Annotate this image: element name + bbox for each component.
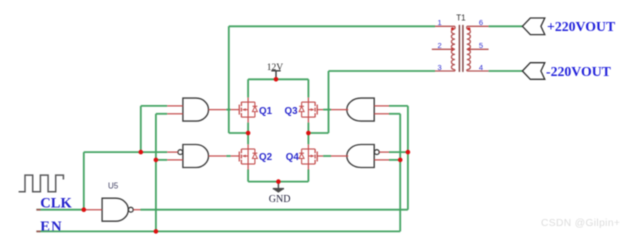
pin number 4: [479, 63, 483, 72]
transformer pin 4 stub: [467, 70, 489, 72]
svg-text:6: 6: [479, 18, 483, 27]
svg-text:CSDN @Gilpin+: CSDN @Gilpin+: [541, 218, 620, 229]
svg-text:GND: GND: [269, 194, 291, 205]
junction right bridge midpoint: [306, 131, 311, 136]
AND gate A (top left): [167, 98, 226, 121]
transformer pin 3 stub: [435, 70, 455, 72]
label 12V: [267, 63, 284, 73]
label GND: [269, 194, 291, 205]
svg-text:1: 1: [438, 18, 442, 27]
junction 12V rail: [274, 77, 279, 82]
wire left midpoint horizontal: [229, 132, 248, 134]
port connector +220VOUT: [522, 18, 544, 35]
transformer pin 5 stub: [467, 48, 489, 50]
wire gate A bottom input: [156, 113, 167, 115]
label Q2: [259, 152, 273, 163]
AND gate C (top right, mirrored): [331, 98, 389, 121]
pin number 1: [438, 18, 442, 27]
wire ground rail: [248, 181, 308, 183]
pin number 3: [438, 63, 442, 72]
wire Q3 drain drop: [307, 79, 309, 97]
wire right midpoint riser to pin 3: [328, 71, 330, 133]
net label CLK: [40, 196, 72, 212]
transformer tap dot pin 5: [467, 48, 470, 51]
transistor Q4 (mirrored): [299, 144, 323, 169]
transformer pin 2 stub: [432, 48, 455, 50]
wire top run to transformer pin 1: [229, 25, 435, 27]
transformer phase dot left: [451, 27, 454, 30]
label Q3: [285, 106, 299, 117]
junction EN / gate D lower input: [398, 158, 403, 163]
wire CLK horizontal: [36, 209, 83, 211]
svg-text:12V: 12V: [267, 63, 284, 73]
wire EN riser left: [155, 114, 157, 232]
junction EN to gate B lower input: [154, 158, 159, 163]
wire gate A output to Q1 gate: [226, 109, 230, 111]
label U5: [108, 182, 119, 191]
svg-text:2: 2: [438, 41, 442, 50]
svg-text:U5: U5: [108, 182, 119, 191]
svg-text:Q1: Q1: [259, 106, 273, 117]
label T1: [456, 13, 466, 22]
wire pin 4 to connector: [489, 70, 523, 72]
wire riser to gate A top input: [140, 106, 142, 152]
transformer pin 6 stub: [467, 25, 489, 27]
svg-text:-220VOUT: -220VOUT: [546, 64, 611, 79]
clock waveform icon: [19, 175, 64, 192]
svg-text:Q2: Q2: [259, 152, 273, 163]
junction CLK / U5 input: [82, 207, 87, 212]
wire gate A top input: [141, 105, 167, 107]
pin number 6: [479, 18, 483, 27]
port connector -220VOUT: [522, 63, 544, 80]
svg-text:+220VOUT: +220VOUT: [547, 19, 615, 34]
wire midpoint to Q2 drain: [247, 133, 249, 144]
wire gate B bottom input: [156, 159, 167, 161]
svg-text:5: 5: [479, 41, 483, 50]
wire gate D bottom input: [389, 159, 400, 161]
wire pin 6 to connector: [489, 25, 523, 27]
svg-text:T1: T1: [456, 13, 466, 22]
wire gate B output to Q2 gate: [226, 155, 230, 157]
transformer tap dot pin 2: [451, 48, 454, 51]
AND gate D with inverted top input (bottom right, mirrored): [331, 145, 389, 168]
net label -220VOUT: [546, 64, 611, 79]
transistor Q2: [231, 144, 258, 169]
wire Q2 source drop: [247, 170, 249, 182]
wire Q1 source to midpoint: [247, 123, 249, 133]
transformer T1 windings and core: [451, 25, 470, 72]
ground symbol: [273, 182, 284, 193]
U5 output stub: [133, 209, 140, 211]
wire EN horizontal: [36, 230, 400, 232]
svg-text:3: 3: [438, 63, 442, 72]
wire gate C output to Q3 gate: [323, 109, 331, 111]
NAND gate U5: [102, 198, 133, 221]
junction CLK branch: [139, 150, 144, 155]
wire Q3 source to midpoint: [307, 123, 309, 133]
wire left midpoint riser to pin 1: [228, 26, 230, 133]
label Q1: [259, 106, 273, 117]
watermark: [541, 218, 620, 229]
wire riser U5 output right: [407, 106, 409, 210]
wire CLK branch horizontal: [84, 151, 167, 153]
wire Q4 source drop: [307, 170, 309, 182]
wire midpoint to Q4 drain: [307, 133, 309, 144]
pin number 2: [438, 41, 442, 50]
junction U5 output / gate D bubble input: [406, 150, 411, 155]
wire gate D bubble input: [389, 151, 408, 153]
wire 12V rail: [248, 78, 308, 80]
wire gate D output to Q4 gate: [323, 155, 331, 157]
svg-text:4: 4: [479, 63, 483, 72]
AND gate B with inverted top input (bottom left): [167, 145, 226, 168]
transistor Q1: [231, 97, 258, 122]
net label EN: [40, 219, 62, 235]
junction ground: [276, 179, 281, 184]
net label +220VOUT: [547, 19, 615, 34]
junction EN riser left: [154, 229, 159, 234]
junction left bridge midpoint: [246, 131, 251, 136]
wire EN riser right: [399, 114, 401, 232]
transformer pin 1 stub: [435, 25, 455, 27]
wire Q1 drain drop: [247, 79, 249, 97]
transformer phase dot right: [467, 27, 470, 30]
transistor Q3 (mirrored): [299, 97, 323, 122]
pin number 5: [479, 41, 483, 50]
svg-text:Q4: Q4: [286, 152, 300, 163]
wire gate C top input: [389, 105, 408, 107]
wire U5 output: [141, 209, 408, 211]
svg-text:Q3: Q3: [285, 106, 299, 117]
wire run to transformer pin 3: [329, 70, 436, 72]
wire gate C bottom input: [389, 113, 400, 115]
power symbol 12V: [271, 71, 280, 80]
wire CLK riser: [83, 152, 85, 210]
U5 input stub: [86, 209, 102, 211]
wire right midpoint horizontal: [308, 132, 328, 134]
label Q4: [286, 152, 300, 163]
